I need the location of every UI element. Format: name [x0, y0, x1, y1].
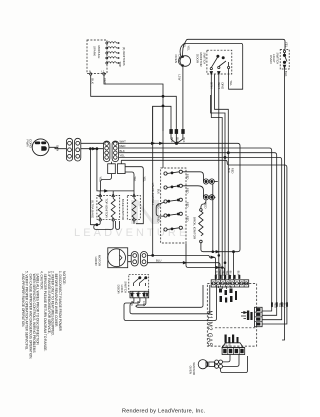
connector B pins 1 [105, 142, 109, 146]
connector A housing 2 [75, 138, 81, 161]
power cord prong N [42, 142, 46, 144]
svg-text:BLK: BLK [90, 78, 94, 84]
board P4 pin dots [224, 349, 244, 353]
svg-text:RED: RED [274, 303, 277, 308]
connector pair C1 [203, 179, 214, 184]
svg-text:CAB: CAB [142, 301, 146, 307]
svg-text:LIGHT: LIGHT [272, 54, 276, 63]
svg-text:TOP IGNITOR: TOP IGNITOR [104, 198, 108, 218]
wire C2 down to broil top [201, 200, 206, 209]
oven light switch terminal top [283, 50, 285, 52]
arrow board in 3 [216, 266, 219, 268]
svg-text:L1: L1 [102, 70, 106, 74]
svg-text:LOCK: LOCK [120, 285, 124, 293]
svg-text:GRY: GRY [103, 78, 107, 84]
oven light switch blade [285, 53, 288, 62]
oven lamp terminal bottom [182, 65, 184, 67]
svg-text:OVEN: OVEN [269, 55, 273, 64]
wire spark N to bus [91, 75, 177, 131]
door lock contacts [134, 278, 147, 287]
svg-text:MOTOR: MOTOR [97, 255, 101, 267]
svg-text:TOP: TOP [118, 61, 122, 67]
wire long vertical BLK x152.7 [152, 106, 154, 255]
wire door lock U3 [136, 285, 203, 307]
arrow bus row1 b [160, 142, 163, 144]
wire plug to connector GRN [49, 147, 66, 148]
notice text block [21, 271, 66, 359]
wire door monitor 1 down [211, 75, 222, 149]
svg-text:YEL: YEL [186, 45, 190, 51]
board P3 wire label marks [271, 302, 288, 307]
connector B housing 2 [112, 141, 119, 162]
board P3 pin dots [257, 309, 261, 326]
terminal box BLK 1 [170, 130, 173, 134]
resistor top ignitor 2 [111, 197, 115, 219]
wire connA to connB row1 [81, 142, 104, 144]
svg-text:BLK: BLK [284, 71, 288, 77]
spark module coil 2 [108, 47, 117, 48]
motor M1 box [108, 248, 128, 268]
wire broil bottom to bus [201, 243, 234, 252]
power cord prong L [35, 142, 40, 144]
door monitor switch S2 box [207, 50, 232, 74]
board connector P3 strip [255, 307, 263, 326]
wire sensor to P4 pin4 [221, 356, 248, 373]
svg-text:BLK: BLK [120, 149, 125, 153]
arrow BLU [183, 262, 186, 264]
svg-text:RED: RED [230, 168, 234, 174]
connector A pins 1 [68, 141, 72, 145]
fuse box F1 [108, 164, 116, 174]
svg-text:YEL: YEL [98, 176, 102, 182]
wire valve to board [186, 244, 225, 280]
door lock connector pin marks [131, 293, 148, 297]
wire sensor to P4 pin3 [223, 355, 240, 367]
svg-text:BROIL IGNITOR: BROIL IGNITOR [192, 217, 196, 240]
svg-text:BLK: BLK [170, 137, 174, 142]
svg-text:N: N [89, 70, 91, 74]
arrow board in 2 [211, 256, 214, 258]
wire ignitor collector inner [94, 221, 134, 229]
valve switch row 4 [164, 212, 183, 217]
valve switch row 1 [164, 170, 183, 175]
oven lamp filament [178, 56, 183, 66]
valve switch row 3 [164, 198, 183, 203]
control board M1/M2 GAS dashed box [207, 284, 256, 347]
door monitor plug pin 2 [218, 72, 220, 75]
wire bus row5 [121, 160, 287, 324]
wire connA to connB row2 [81, 148, 104, 150]
svg-text:BLK: BLK [130, 301, 134, 306]
svg-text:SWITCH: SWITCH [123, 281, 127, 293]
board relay cluster 1 [219, 289, 237, 303]
svg-text:YEL: YEL [284, 42, 288, 48]
door monitor plug pin 1 [210, 72, 212, 75]
svg-text:RED: RED [222, 271, 225, 276]
board relay cluster 2 arrows [241, 313, 246, 319]
spark coil arrows [117, 43, 119, 63]
wire F2 top [120, 160, 122, 164]
oven sensor body lines [206, 361, 208, 368]
svg-text:SWITCH: SWITCH [202, 53, 206, 65]
svg-text:OVEN: OVEN [188, 366, 192, 375]
connector pair C2 [203, 195, 214, 200]
svg-text:BLK: BLK [237, 271, 240, 276]
power cord plug P1 [32, 139, 49, 156]
top ignitor plug pin 1 [99, 194, 102, 197]
spark module terminal L1 [103, 73, 105, 75]
terminal box BLK 3 [182, 130, 185, 134]
svg-text:VALVE SWITCH: VALVE SWITCH [151, 183, 155, 205]
svg-text:SPARK: SPARK [93, 46, 97, 56]
spark module terminal N [90, 73, 92, 75]
oven light switch contact dots [283, 54, 285, 56]
wire F1 to ignitor YEL [99, 174, 112, 191]
node collector [96, 224, 98, 226]
svg-text:BLK: BLK [270, 303, 273, 308]
connector B pins 2 [114, 142, 118, 146]
board P3 pin squares [255, 312, 263, 322]
motor conn oval 1 [131, 252, 138, 267]
svg-text:RED: RED [156, 203, 160, 209]
wire motor bus BLU y262.7 [148, 263, 221, 280]
control board internal dashed line [215, 327, 257, 329]
board P2 pin squares [216, 280, 244, 287]
svg-text:GRN: GRN [56, 145, 60, 151]
wire door lock U2 [130, 285, 210, 314]
wire branch y106 [153, 106, 171, 141]
wire C2 to broil [214, 196, 215, 198]
node junction x90.4 [89, 148, 91, 150]
wire lamp bottom BLU down [182, 66, 184, 131]
bake ignitor plug pin [133, 194, 136, 197]
resistor bake ignitor [132, 197, 136, 219]
board bottom marks [225, 335, 239, 343]
wire motor to conn [128, 256, 132, 262]
door lock contact dots [139, 277, 141, 279]
broil ignitor bottom circle [200, 240, 203, 243]
spark module coil 3 [108, 52, 117, 53]
wire V converge to bus node [171, 131, 183, 143]
node spark junction 1 [162, 95, 164, 97]
spark module U1 [87, 40, 107, 74]
oven lamp DS1 [180, 56, 191, 67]
door monitor terminal 2 [218, 66, 220, 68]
wire valve row2 to C2 [182, 186, 203, 198]
wire spark L1 to node [104, 75, 163, 131]
wire long vertical x163 to valve box [162, 106, 164, 168]
svg-text:HOOD: HOOD [94, 257, 98, 267]
motor conn oval 2 [141, 252, 148, 267]
svg-text:YEL: YEL [225, 271, 228, 276]
board relay wires [219, 286, 232, 289]
oven sensor conn circles [215, 360, 223, 368]
wire vertical x218.8 end [218, 143, 220, 279]
svg-text:RED: RED [224, 341, 227, 346]
door monitor contact dot 1 [217, 55, 219, 57]
door lock switch S5 box [129, 275, 149, 294]
svg-text:RED: RED [120, 144, 126, 148]
spark module coil 5 [108, 62, 117, 63]
svg-text:DOOR: DOOR [116, 285, 120, 295]
wire bus row1 WHT [119, 143, 240, 279]
svg-text:RED: RED [185, 188, 189, 194]
wire x90.4 down [89, 149, 91, 225]
bake ignitor bottom circle [133, 219, 135, 221]
svg-text:YEL: YEL [142, 176, 146, 182]
svg-text:ORG: ORG [220, 82, 224, 90]
wire F2 to bake YEL [125, 172, 134, 194]
wire F2 right YEL [125, 167, 143, 224]
svg-text:BLK: BLK [215, 271, 218, 276]
svg-text:SENSOR: SENSOR [192, 362, 196, 376]
top ignitor box E1 [97, 195, 120, 219]
svg-text:YEL: YEL [182, 42, 186, 48]
broil ignitor top circle [200, 209, 203, 212]
svg-text:ORG: ORG [228, 341, 231, 347]
spark module coil 1 [108, 42, 117, 43]
resistor broil ignitor [199, 211, 203, 236]
oven light switch S3 box [280, 50, 289, 70]
bake ignitor box E2 [127, 195, 140, 219]
svg-text:CORD: CORD [29, 139, 33, 149]
svg-text:MONITOR: MONITOR [199, 53, 203, 68]
svg-text:RED: RED [185, 202, 189, 208]
wire motor bus y255.4 [148, 255, 216, 279]
svg-text:RED: RED [185, 216, 189, 222]
door monitor terminal 3 [228, 66, 230, 68]
svg-text:WHT: WHT [218, 271, 221, 277]
node junction x96.9 [96, 148, 98, 150]
valve switch row 2 [164, 184, 183, 189]
power cord prong G [42, 147, 47, 151]
arrow connector join 1 [93, 148, 96, 150]
svg-text:WHT: WHT [217, 82, 221, 89]
node bus junction [175, 142, 177, 144]
door monitor switch contacts [211, 57, 228, 68]
door monitor contact dot 2 [222, 57, 224, 59]
svg-text:RED: RED [185, 174, 189, 180]
svg-text:BRN: BRN [209, 82, 213, 88]
board relay cluster 2 [247, 311, 253, 321]
wire door lock U1 [124, 285, 217, 321]
svg-text:OVEN: OVEN [174, 55, 178, 64]
svg-text:RED: RED [203, 202, 207, 209]
svg-text:YEL: YEL [278, 303, 281, 308]
resistor top ignitor 1 [98, 197, 102, 219]
svg-text:LAMP: LAMP [178, 55, 182, 63]
wire sensor to P4 pin2 [223, 355, 231, 362]
wire valve row1 to C1 [182, 172, 203, 182]
node row4 junction [224, 156, 226, 158]
wire ignitor feed [99, 191, 135, 194]
wire vertical x228.3 end [227, 165, 229, 280]
node bus dots [218, 255, 220, 257]
svg-text:BLU: BLU [156, 259, 161, 263]
arrow bus row1 a [152, 142, 155, 144]
svg-text:BLK: BLK [136, 301, 140, 306]
arrow board in 1 [216, 251, 219, 253]
motor M1 circle [108, 249, 126, 267]
node spark junction 2 [162, 105, 164, 107]
wire vertical x222.2 end [221, 148, 223, 280]
svg-text:SWITCH: SWITCH [276, 53, 280, 65]
wire door monitor extra [211, 95, 225, 153]
connector A housing 1 [66, 138, 72, 161]
top ignitor plug pin 2 [112, 194, 115, 197]
valve switch row 5 [164, 226, 183, 231]
wire ignitor bottoms collector [90, 221, 100, 225]
svg-text:ULTRA BAKE: ULTRA BAKE [90, 200, 94, 218]
door monitor terminal 1 [210, 68, 212, 70]
top ignitor bottom circle 1 [99, 219, 101, 221]
oven sensor neck [209, 362, 215, 367]
wire oven light switch down BLK [282, 68, 285, 340]
svg-text:BLK: BLK [182, 137, 186, 142]
watermark logo N [131, 200, 159, 224]
spark coil terminals [106, 42, 108, 64]
svg-text:WHT: WHT [120, 140, 127, 144]
svg-text:BLU: BLU [229, 271, 232, 276]
svg-text:DOOR: DOOR [196, 54, 200, 64]
svg-text:YEL: YEL [229, 80, 233, 86]
board P4 pin squares [228, 348, 239, 355]
spark module coil 4 [108, 57, 117, 58]
wire valve rows 3-4 left jumper [156, 202, 164, 216]
door lock connector row [130, 291, 149, 298]
node motor bus x152.7 [152, 254, 154, 256]
wire C1 to vertical [214, 181, 217, 183]
board P2 pin label marks [215, 275, 241, 279]
svg-text:AND PROPER RANGE OPERATION.: AND PROPER RANGE OPERATION. [21, 271, 25, 327]
svg-text:BLU: BLU [283, 303, 286, 308]
wire bus row2 RED [119, 148, 272, 311]
wire F1 top [111, 162, 113, 164]
board connector P4 strip [222, 348, 245, 355]
svg-text:RED: RED [156, 217, 160, 223]
wire x96.9 down to ignitor feed [97, 149, 99, 191]
connector A pins 2 [76, 141, 80, 145]
svg-text:BAKE IGNITOR: BAKE IGNITOR [121, 199, 125, 221]
svg-text:M1/M2 GAS: M1/M2 GAS [206, 311, 212, 347]
door lock connector pins [133, 291, 145, 298]
board connector P2 strip [211, 280, 249, 287]
node broil-row1 [233, 251, 235, 253]
oven light switch terminal bottom [283, 65, 285, 68]
board P2 pin circles [212, 282, 248, 285]
svg-text:BLK: BLK [156, 189, 160, 194]
top ignitor bottom circle 2 [112, 219, 114, 221]
svg-text:BLK: BLK [227, 168, 231, 173]
wire vertical x225 end [224, 153, 226, 280]
wire bus row4 YEL [119, 157, 282, 319]
wire bus row3 BLK [119, 153, 277, 316]
node row3 junction [227, 152, 229, 154]
wire door monitor mid down [215, 75, 229, 166]
svg-text:YEL: YEL [120, 154, 126, 158]
wire door monitor 2 down [218, 75, 220, 144]
fuse box F2 [118, 164, 126, 174]
svg-text:YEL: YEL [133, 176, 137, 182]
arrow ignitor feed [105, 190, 108, 192]
svg-text:Rendered by LeadVenture, Inc.: Rendered by LeadVenture, Inc. [122, 409, 206, 415]
board bottom trapezoid [222, 343, 243, 348]
svg-text:MODULE: MODULE [97, 46, 101, 59]
svg-text:L1W: L1W [178, 74, 182, 80]
terminal box BLK 2 [175, 130, 178, 134]
motor internal [120, 249, 123, 266]
oven sensor RT1 bulb [198, 360, 207, 369]
wire lamp second YEL [180, 43, 243, 89]
svg-text:BLK: BLK [175, 137, 179, 142]
wire lamp to top bus YEL [183, 39, 285, 55]
svg-text:(4) IGNITORS: (4) IGNITORS [122, 47, 126, 66]
connector B housing 1 [103, 141, 110, 162]
wire broil right vertical [212, 184, 214, 252]
oven lamp terminal top [182, 56, 184, 58]
arrow relay [244, 312, 247, 314]
node x212.8 on bus [212, 251, 214, 253]
valve switch box S4 [161, 168, 186, 243]
